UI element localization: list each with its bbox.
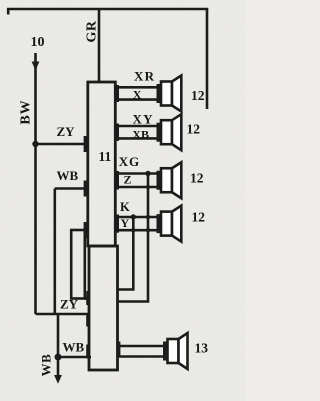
svg-text:XB: XB — [132, 127, 149, 141]
wire: drop from K wire down into lower box — [117, 217, 134, 290]
terminal tabs, lower box — [86, 291, 120, 359]
node: junction on K wire — [131, 214, 136, 219]
horn 13 — [163, 333, 188, 369]
svg-text:XR: XR — [134, 69, 155, 84]
wire to horn 13 (top) — [119, 345, 164, 348]
wire ZY: horizontal from node A to box 11 — [36, 143, 88, 146]
node: junction WB2/arrow — [55, 354, 62, 361]
wire BW: vertical from arrow 10 down to node ZY2 — [34, 53, 37, 314]
lower box (horn unit) — [89, 246, 118, 370]
arrow WB head (bottom) — [54, 375, 62, 384]
svg-text:ZY: ZY — [57, 124, 76, 139]
arrow 10 head — [32, 62, 40, 71]
svg-text:WB: WB — [57, 168, 79, 183]
svg-text:Z: Z — [124, 172, 132, 186]
svg-text:K: K — [120, 200, 130, 214]
wire: vertical drop from WB wire — [53, 189, 56, 315]
horn 12 (4) — [157, 206, 182, 242]
svg-text:ZY: ZY — [60, 297, 79, 312]
node: drop A on Y wire — [131, 228, 135, 232]
terminal tabs, box 11 right — [115, 85, 119, 233]
wire XR to horn 1 — [116, 86, 158, 89]
wire: left tick at bus start — [7, 8, 10, 15]
wire XG to horn 3 — [116, 172, 158, 175]
wire ZY2: horizontal bottom into lower box — [36, 313, 91, 316]
wire to horn 13 (bottom) — [119, 355, 164, 358]
svg-text:12: 12 — [192, 210, 206, 225]
svg-text:12: 12 — [187, 122, 201, 137]
svg-text:BW: BW — [19, 99, 34, 124]
wire: top supply bus — [7, 8, 208, 11]
wire: right border drop from bus — [206, 9, 209, 109]
wire Y to horn 4 — [116, 229, 158, 232]
svg-text:GR: GR — [85, 20, 100, 42]
svg-text:13: 13 — [195, 341, 209, 356]
wire: loop from box 11 left side down to lower box — [84, 297, 90, 300]
horn 12 (2) — [157, 114, 182, 150]
loop rectangle between boxes — [71, 230, 85, 299]
wire XB to horn 2 — [116, 137, 158, 140]
paper background — [0, 0, 245, 401]
node: drop B on K wire — [146, 215, 150, 219]
wire K to horn 4 — [116, 216, 158, 219]
svg-text:XY: XY — [133, 111, 154, 126]
horn 12 (3) — [157, 162, 182, 198]
svg-text:11: 11 — [99, 149, 112, 164]
svg-text:Y: Y — [121, 216, 130, 230]
node A: junction BW/ZY — [32, 141, 38, 147]
wire GR: vertical from bus to box 11 — [98, 9, 101, 82]
wire WB: horizontal into box 11 — [55, 187, 87, 190]
svg-text:12: 12 — [190, 171, 204, 186]
wire: arrow shaft WB bottom — [57, 357, 60, 376]
svg-text:10: 10 — [31, 35, 45, 50]
horn 12 (1) — [157, 76, 182, 112]
node: drop B on Z wire — [146, 185, 150, 189]
wire X to horn 1 — [116, 98, 158, 101]
svg-text:12: 12 — [191, 88, 205, 103]
wire Z to horn 3 — [116, 186, 158, 189]
wire: drop from XG wire down into lower box — [117, 174, 148, 302]
terminal tabs, box 11 left — [84, 136, 89, 238]
wire: vertical from ZY2 node to WB2 node — [57, 314, 60, 357]
svg-text:XG: XG — [119, 154, 140, 169]
svg-text:X: X — [133, 87, 142, 101]
node: drop B on Y wire — [146, 228, 150, 232]
box 11 (relay unit) — [88, 82, 116, 246]
svg-text:WB: WB — [39, 354, 54, 377]
svg-text:WB: WB — [63, 340, 85, 355]
node: junction on XG wire — [145, 171, 150, 176]
wire WB2: horizontal into lower box — [58, 356, 91, 359]
wire XY to horn 2 — [116, 125, 158, 128]
